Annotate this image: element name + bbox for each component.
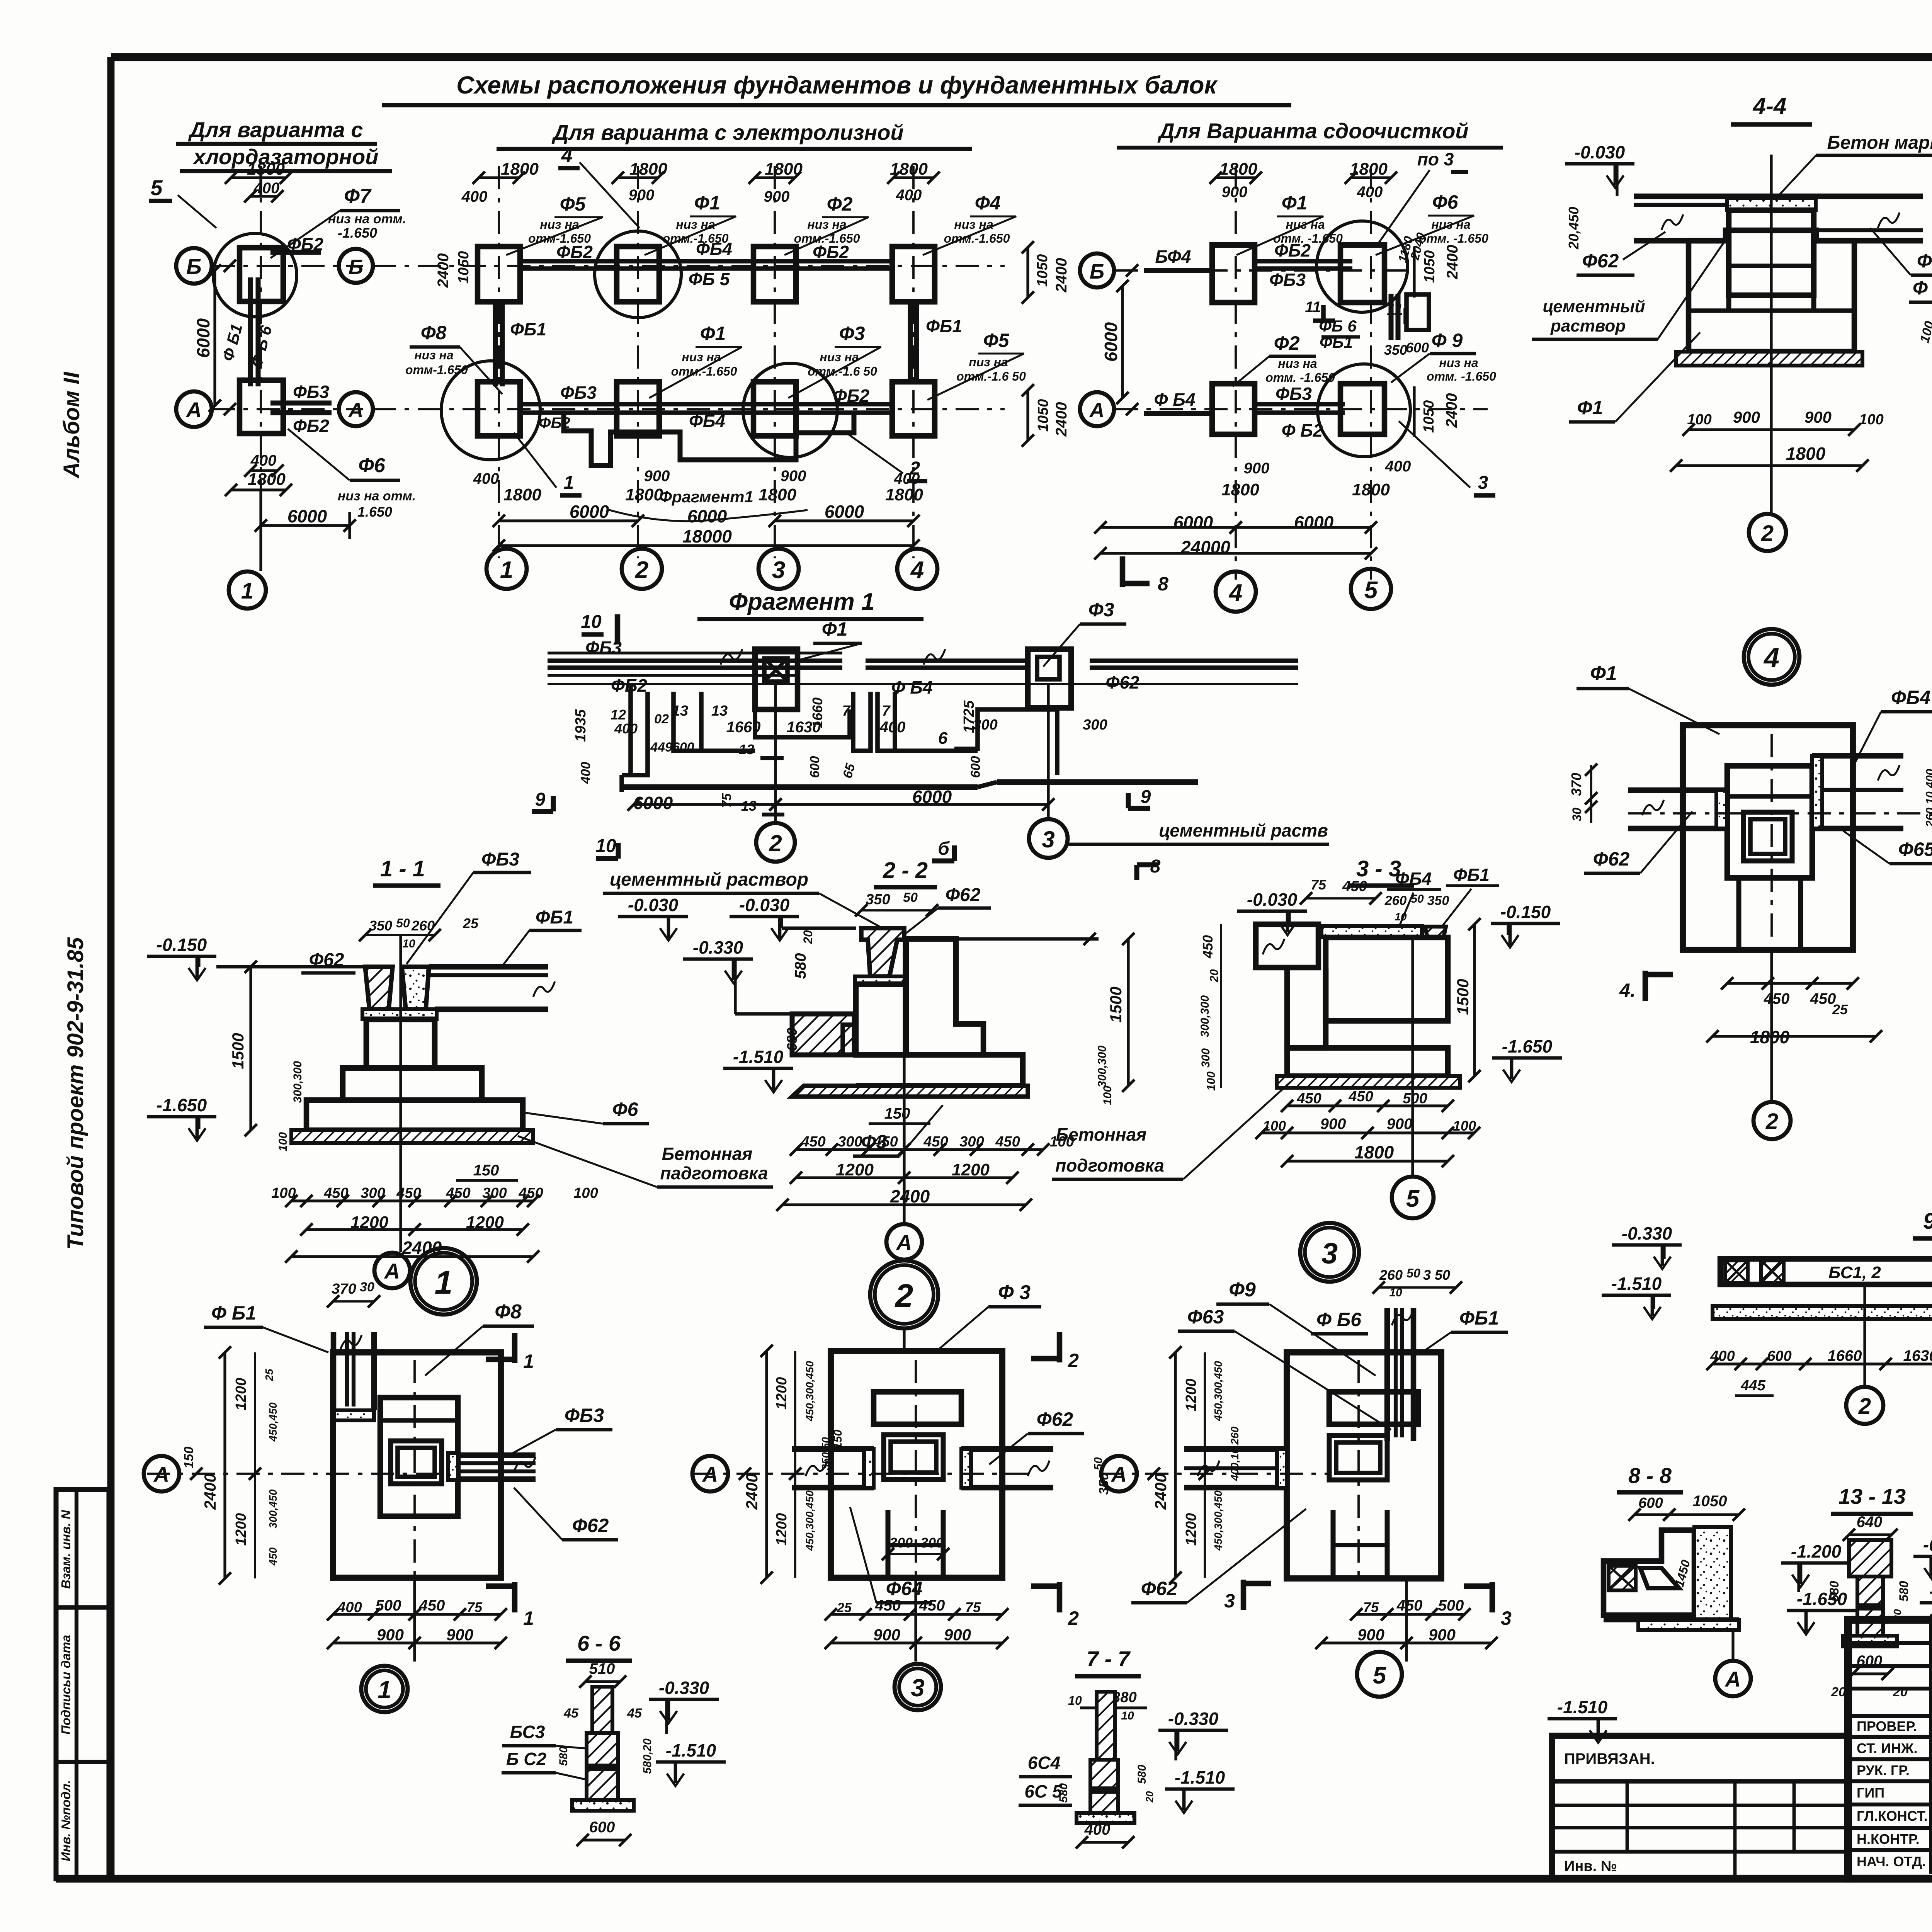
section 4-4 labels FB4 FB5 (1870, 228, 1932, 302)
node 4 bottom dims (1706, 977, 1882, 1047)
fragment 1 label FB2 left (611, 675, 647, 696)
section 8-8 parts (1604, 1527, 1739, 1630)
plan C top dims (1209, 160, 1397, 201)
fragment 1 bottom dim 6000 left (628, 793, 782, 813)
svg-text:-1.510: -1.510 (1175, 1767, 1225, 1787)
svg-text:350: 350 (1384, 342, 1407, 358)
svg-text:А: А (1111, 1462, 1127, 1486)
svg-text:600: 600 (1406, 340, 1429, 355)
svg-text:2: 2 (1068, 1350, 1079, 1371)
svg-text:45: 45 (563, 1706, 579, 1721)
svg-text:Ф1: Ф1 (1577, 397, 1603, 418)
svg-text:13: 13 (672, 703, 688, 719)
svg-text:6: 6 (938, 729, 948, 748)
node 2 label FB4 bottom (850, 1507, 932, 1603)
svg-text:9 - 9: 9 - 9 (1923, 1209, 1932, 1234)
svg-text:400: 400 (1385, 458, 1411, 475)
svg-text:900: 900 (1387, 1116, 1413, 1133)
section 4-4 note Beton marki 100 (1774, 133, 1932, 201)
section 1-1 top dims 350 50 260 25 (359, 915, 479, 950)
svg-text:13 - 13: 13 - 13 (1838, 1484, 1906, 1509)
svg-text:4: 4 (910, 557, 924, 583)
node 3 left rot dims (1151, 1346, 1241, 1584)
svg-text:400: 400 (578, 762, 593, 784)
svg-text:1800: 1800 (629, 160, 667, 179)
svg-text:25: 25 (463, 915, 479, 931)
svg-text:-1.510: -1.510 (733, 1047, 784, 1067)
svg-text:отм. -1.650: отм. -1.650 (1273, 231, 1343, 245)
svg-text:20: 20 (1144, 1791, 1155, 1803)
fragment 1 bottom dim 6000 right (769, 787, 1054, 811)
svg-text:низ на: низ на (1439, 356, 1478, 370)
node 1 label FB1 (204, 1302, 328, 1352)
svg-text:450: 450 (518, 1185, 543, 1201)
plan A axis line B (212, 265, 363, 267)
svg-text:Б: Б (186, 254, 202, 279)
svg-text:300,300: 300,300 (291, 1061, 304, 1103)
svg-text:ФБ 5: ФБ 5 (689, 269, 730, 289)
plan B axis circle 1 bottom (486, 549, 527, 589)
svg-text:20,450: 20,450 (1566, 207, 1582, 250)
title block staff labels (1857, 1718, 1932, 1869)
plan B axis circle 3 bottom (759, 549, 799, 589)
svg-text:100: 100 (1263, 1118, 1286, 1134)
plan C footings row A (1212, 364, 1410, 457)
node 1 dims 370 30 top (327, 1280, 380, 1308)
svg-text:900: 900 (1733, 408, 1760, 426)
main title (382, 71, 1291, 105)
node 2 dims 300 300 (882, 1535, 949, 1560)
svg-text:Ф Б6: Ф Б6 (1316, 1309, 1362, 1330)
plan C section mark 3 (1399, 421, 1495, 495)
svg-text:400: 400 (1084, 1821, 1111, 1838)
axis circle 4 big above node 4 (1744, 629, 1799, 685)
plan A axis circle 1 bottom (229, 490, 266, 609)
section 3-3 bottom dims row2 (1255, 1116, 1480, 1139)
section 7-7 dim 400 (1076, 1821, 1134, 1849)
node 4 label F1 (1577, 662, 1719, 734)
fragment 1 mark 10 bottom (595, 836, 618, 859)
section 1-1 label FB2 (301, 950, 355, 973)
svg-text:1200: 1200 (952, 1160, 990, 1179)
svg-text:50: 50 (1411, 893, 1424, 905)
section 9-9 base strip (1713, 1306, 1932, 1319)
svg-text:2400: 2400 (743, 1473, 761, 1510)
svg-text:75: 75 (467, 1599, 483, 1615)
svg-text:низ на: низ на (676, 218, 715, 231)
node 4 rot dims right (1924, 719, 1932, 956)
svg-text:ФБ2: ФБ2 (833, 386, 869, 406)
svg-text:низ на отм.: низ на отм. (338, 489, 416, 503)
plan B section mark 4 top (558, 145, 639, 228)
svg-text:02: 02 (654, 712, 669, 726)
section 7-7 parts (1077, 1692, 1134, 1823)
svg-text:А: А (153, 1462, 169, 1486)
plan A axis circle A (176, 391, 236, 427)
svg-text:7: 7 (842, 703, 851, 719)
svg-text:10: 10 (1395, 911, 1407, 923)
svg-text:ФБ3: ФБ3 (293, 382, 329, 402)
svg-text:300: 300 (1199, 1048, 1212, 1068)
svg-text:3: 3 (1042, 827, 1054, 852)
svg-text:6 - 6: 6 - 6 (577, 1631, 621, 1655)
section 7-7 rot dims (1057, 1765, 1155, 1803)
svg-text:цементный: цементный (1543, 297, 1645, 316)
svg-text:-1.650: -1.650 (156, 1095, 207, 1115)
section 7-7 labels BC4 BC5 (1019, 1753, 1072, 1805)
svg-text:450,300,450: 450,300,450 (804, 1361, 816, 1422)
svg-text:А: А (185, 398, 202, 422)
section 7-7 level -1.510 (1165, 1767, 1235, 1813)
svg-text:Ф Б4: Ф Б4 (891, 677, 933, 697)
node 1 section flag 1 bottom (486, 1582, 534, 1629)
svg-text:7: 7 (882, 703, 891, 719)
plan A beams FB1 FB6 vertical (219, 277, 276, 386)
section 6-6 rot dims 580 20 (557, 1738, 654, 1774)
svg-text:900: 900 (446, 1626, 473, 1644)
svg-text:400: 400 (1710, 1348, 1735, 1364)
svg-text:Ф62: Ф62 (1593, 848, 1630, 870)
section 1-1 dim 1500 left (229, 961, 257, 1136)
svg-text:ФБ 6: ФБ 6 (1319, 317, 1357, 335)
fragment 1 top beams (548, 649, 1298, 684)
svg-text:4.: 4. (1619, 980, 1636, 1001)
section 3-3 level -0.030 (1237, 889, 1307, 935)
svg-text:640: 640 (1857, 1514, 1883, 1531)
section 8-8 rot dim 1450 (1672, 1558, 1693, 1588)
svg-text:500: 500 (376, 1597, 401, 1614)
plan C axis line B (1115, 269, 1406, 272)
svg-text:Ф1: Ф1 (1282, 192, 1308, 214)
svg-text:1800: 1800 (885, 485, 923, 504)
section 4-4 bottom dims (1670, 408, 1884, 472)
svg-text:1800: 1800 (1786, 444, 1826, 464)
plan A dim 6000 left (193, 264, 221, 412)
section 1-1 column (366, 1019, 435, 1068)
svg-text:1800: 1800 (248, 470, 286, 489)
svg-text:450: 450 (1764, 990, 1790, 1007)
svg-text:100: 100 (573, 1185, 598, 1201)
plan B middle leader labels (405, 322, 1026, 400)
section 2-2 base strip (792, 1086, 1028, 1097)
svg-text:отм-1.650: отм-1.650 (528, 231, 591, 245)
section 3-3 dims 260 50 350 (1384, 893, 1449, 923)
section 4-4 dim 100 right rot (1917, 320, 1932, 345)
section 6-6 level -0.330 (649, 1678, 719, 1734)
svg-text:низ на: низ на (682, 350, 721, 364)
plan B footing axis 1 row A (478, 382, 520, 436)
svg-text:низ на: низ на (540, 218, 579, 231)
plan C mark po 3 (1376, 149, 1468, 247)
node 1 beam FB1 from top (333, 1332, 374, 1420)
svg-text:900: 900 (1804, 408, 1832, 426)
svg-text:Ф1: Ф1 (822, 618, 848, 640)
section 8-8 level -1.650 (1787, 1589, 1857, 1634)
svg-text:Ф62: Ф62 (1037, 1408, 1073, 1430)
section 6-6 level -1.510 (656, 1740, 726, 1786)
plan A dim 6000 bottom (255, 506, 356, 539)
node 3 label FB1 top (1422, 1307, 1508, 1352)
svg-text:900: 900 (1244, 460, 1270, 477)
section 4-4 mortar note (1532, 232, 1731, 339)
plan B beam line row A (520, 404, 893, 413)
plan C beam BF4 row B (1144, 247, 1212, 270)
section 1-1 axis circle A (374, 935, 410, 1288)
section 2-2 beam trapezoid (861, 928, 904, 976)
svg-text:150: 150 (473, 1162, 499, 1179)
svg-text:Ф Б2: Ф Б2 (1282, 420, 1323, 440)
svg-text:450,300,450: 450,300,450 (804, 1490, 816, 1551)
plan B axis line A horizontal (373, 408, 1005, 410)
fragment 1 label F1 (796, 618, 862, 661)
section 2-2 dims 350 50 (855, 890, 938, 917)
svg-text:падготовка: падготовка (660, 1163, 768, 1183)
node 4 section flags 4 (1619, 971, 1932, 1012)
plan B node circle at axis 3 row A (743, 363, 837, 457)
fragment 1 mark 10 top (581, 612, 617, 645)
section 6-6 labels BC3 BC2 (502, 1722, 585, 1779)
svg-text:низ на отм.: низ на отм. (328, 212, 406, 226)
plan B label FB1 left (510, 319, 546, 339)
svg-text:900: 900 (944, 1626, 971, 1644)
node 4 label FB4 (1851, 687, 1932, 771)
node 3 axis line A and circle (1100, 1360, 1359, 1578)
svg-text:Для варианта с: Для варианта с (188, 117, 363, 142)
svg-text:1800: 1800 (1750, 1027, 1790, 1047)
section 2-2 label FB2 (906, 885, 991, 933)
svg-text:6000: 6000 (570, 502, 609, 522)
svg-text:260 10 400: 260 10 400 (1924, 769, 1932, 827)
svg-text:3: 3 (1321, 1237, 1338, 1270)
svg-text:7 - 7: 7 - 7 (1087, 1646, 1131, 1671)
svg-text:Ф5: Ф5 (983, 330, 1010, 351)
plan A beam FB2 on axis B (270, 234, 323, 254)
svg-text:4: 4 (561, 145, 573, 167)
plan A footing F7 on axis B (213, 233, 297, 317)
svg-text:1800: 1800 (765, 160, 803, 179)
svg-text:1800: 1800 (890, 160, 928, 179)
svg-text:2400: 2400 (1444, 245, 1461, 280)
svg-text:900: 900 (764, 188, 790, 205)
svg-text:100: 100 (1687, 412, 1711, 428)
svg-text:Н.КОНТР.: Н.КОНТР. (1857, 1831, 1920, 1847)
node 3 label FB3 (1178, 1306, 1391, 1430)
svg-text:1: 1 (241, 578, 253, 604)
section 2-2 mortar strip (855, 976, 907, 984)
svg-text:Б С2: Б С2 (506, 1749, 547, 1769)
plan B node circle at axis 1 row A (441, 361, 540, 460)
svg-text:2400: 2400 (1053, 402, 1070, 437)
section 1-1 footing (306, 1100, 523, 1130)
svg-text:5: 5 (150, 175, 163, 200)
svg-text:А: А (1725, 1667, 1741, 1691)
svg-text:900: 900 (644, 468, 670, 485)
section 4-4 floor slabs (1634, 196, 1923, 241)
svg-text:400: 400 (1357, 184, 1383, 201)
svg-text:1800: 1800 (1221, 480, 1259, 499)
fragment 1 axis circle 2 (756, 684, 795, 862)
svg-text:1: 1 (435, 1264, 453, 1301)
section 2-2 dim 150 (869, 1105, 930, 1124)
svg-text:Ф1: Ф1 (700, 323, 726, 344)
node 4 inner column (1727, 766, 1812, 950)
svg-text:отм.-1.650: отм.-1.650 (944, 231, 1010, 245)
svg-text:1: 1 (564, 473, 574, 493)
svg-text:ФБ3: ФБ3 (1276, 384, 1312, 404)
svg-text:Ф6: Ф6 (1432, 191, 1459, 213)
section 1-1 beam trapezoid hatched (365, 967, 429, 1009)
svg-text:-0.330: -0.330 (693, 937, 743, 957)
svg-text:ПРИВЯЗАН.: ПРИВЯЗАН. (1564, 1750, 1655, 1767)
plan A dim 400 bottom (244, 452, 284, 477)
svg-text:Для варианта с электролизно: Для варианта с электролизной (551, 120, 903, 145)
svg-text:по 3: по 3 (1417, 149, 1454, 169)
svg-text:1800: 1800 (501, 160, 539, 179)
node 3 label FB2 bottom (1131, 1509, 1306, 1603)
svg-text:1800: 1800 (1352, 480, 1390, 499)
svg-text:Схемы расположения фундамент: Схемы расположения фундаментов и фундаме… (456, 71, 1218, 99)
node 4 axis line B and circle (1628, 734, 1932, 943)
plan B footing axis 1 row B (478, 247, 520, 302)
plan B side dims 2400 1050 (435, 241, 1070, 447)
plan B footing axis 2 row B (617, 247, 659, 302)
svg-text:12: 12 (611, 707, 626, 723)
section 8-8 level -1.510 left (1548, 1697, 1617, 1743)
svg-text:Подписьи дата: Подписьи дата (59, 1635, 73, 1735)
svg-text:ФБ3: ФБ3 (481, 849, 519, 870)
node 2 section flag 2 top (1031, 1332, 1079, 1371)
node 3 section flag 3 right (1464, 1582, 1512, 1629)
svg-text:низ на: низ на (414, 348, 453, 362)
svg-text:30: 30 (1570, 808, 1584, 821)
section 1-1 rot dims 300 (277, 1061, 304, 1151)
svg-text:ФБ2: ФБ2 (287, 234, 323, 254)
plan A beams FB3 FB2 on axis A (270, 382, 332, 436)
svg-text:ФБ1: ФБ1 (926, 316, 962, 336)
svg-text:Ф8: Ф8 (495, 1301, 522, 1323)
svg-text:отм-1.650: отм-1.650 (405, 363, 468, 377)
svg-text:1050: 1050 (1693, 1493, 1727, 1510)
plan B title (497, 120, 972, 149)
svg-text:350: 350 (1427, 893, 1449, 908)
svg-text:260: 260 (411, 918, 435, 934)
plan C axis circle B (1080, 253, 1138, 287)
plan C axis line A (1115, 408, 1488, 410)
svg-text:500: 500 (1403, 1090, 1427, 1107)
svg-text:Ф 9: Ф 9 (1432, 330, 1463, 351)
node 2 axis circle 3 bottom (895, 1578, 941, 1710)
node 2 label F3 (935, 1281, 1041, 1352)
svg-text:Взам. инв. N: Взам. инв. N (59, 1510, 73, 1589)
svg-text:11: 11 (1387, 301, 1403, 318)
svg-text:2: 2 (895, 1277, 913, 1314)
svg-text:600: 600 (1638, 1495, 1663, 1511)
svg-text:300: 300 (959, 1134, 984, 1150)
plan B bottom dims (473, 468, 923, 552)
svg-text:25: 25 (263, 1369, 275, 1381)
section 1-1 mortar strip (362, 1009, 437, 1019)
svg-text:ФБ3: ФБ3 (585, 638, 622, 658)
section 6-6 parts (563, 1687, 642, 1811)
plan B beams FB1 vertical axis1 and axis4 (495, 301, 917, 386)
svg-text:2400: 2400 (1151, 1473, 1170, 1510)
fragment 1 mark 6 bottom (932, 838, 954, 861)
svg-text:300,300: 300,300 (1199, 995, 1211, 1037)
svg-text:150: 150 (182, 1447, 196, 1469)
section 9-9 title (1913, 1209, 1932, 1238)
svg-text:низ на: низ на (1286, 218, 1325, 231)
svg-text:1200: 1200 (836, 1160, 874, 1179)
section 6-6 dim 510 (579, 1660, 626, 1688)
svg-text:20: 20 (1831, 1685, 1846, 1699)
plan B axis line 2 vertical (637, 166, 639, 558)
svg-text:ФБ1: ФБ1 (510, 319, 546, 339)
svg-text:50: 50 (396, 916, 410, 930)
section 4-4 label F1 (1569, 332, 1700, 422)
plan C section mark 8 bottom (1122, 556, 1168, 595)
svg-text:100: 100 (1453, 1118, 1476, 1134)
svg-text:1800: 1800 (247, 160, 285, 179)
svg-text:2400: 2400 (890, 1186, 930, 1206)
svg-text:24000: 24000 (1180, 537, 1230, 557)
svg-text:45: 45 (627, 1706, 642, 1721)
plan B top dims (461, 160, 940, 205)
section 2-2 levels -0.030 (618, 895, 856, 940)
svg-text:2: 2 (1068, 1607, 1079, 1629)
svg-text:Ф63: Ф63 (1187, 1306, 1224, 1328)
section 9-9 beam strip (1720, 1259, 1932, 1284)
node 3 bottom dims (1315, 1597, 1498, 1649)
node 4 label FB5 (1843, 831, 1932, 864)
section 4-4 dims 20 450 left rot (1566, 207, 1582, 250)
svg-text:ГЛ.КОНСТ.: ГЛ.КОНСТ. (1857, 1808, 1928, 1824)
node 4 rot dims left 30 370 (1568, 764, 1597, 823)
svg-text:75: 75 (1311, 877, 1327, 893)
svg-text:1800: 1800 (625, 485, 663, 504)
svg-text:ФБ3: ФБ3 (565, 1405, 604, 1426)
section 2-2 rot dims left (784, 930, 815, 1051)
section 1-1 label F6 (526, 1099, 649, 1124)
svg-text:300,450: 300,450 (267, 1489, 279, 1529)
plan A dim 1800 top (225, 160, 292, 195)
svg-text:6000: 6000 (912, 787, 952, 807)
plan B fragment1 callout (607, 488, 808, 521)
svg-text:1800: 1800 (1219, 160, 1257, 179)
svg-text:ФБ1: ФБ1 (1320, 333, 1353, 351)
section 1-1 label FB3 top (406, 849, 531, 964)
fragment 1 label FB3 (585, 638, 622, 658)
section 3-3 level -0.150 right (1491, 902, 1560, 947)
svg-text:3: 3 (1224, 1590, 1235, 1612)
svg-text:ФБ3: ФБ3 (1269, 270, 1306, 290)
svg-text:1200: 1200 (774, 1377, 790, 1410)
section 13-13 dim 640 (1843, 1514, 1898, 1541)
section 1-1 bottom dim 2400 (285, 1238, 539, 1263)
svg-text:8 - 8: 8 - 8 (1628, 1463, 1672, 1488)
plan B labels row A beams (539, 383, 869, 432)
plan B footing axis 4 row A (892, 382, 935, 436)
section 3-3 labels FB4 FB1 (1387, 865, 1499, 927)
node 1 inner parts (380, 1398, 458, 1516)
svg-text:400: 400 (473, 470, 499, 487)
svg-text:900: 900 (781, 468, 806, 485)
title block left table grid (1848, 1620, 1932, 1879)
svg-text:Инв. №: Инв. № (1564, 1858, 1617, 1874)
svg-text:2400: 2400 (435, 253, 452, 288)
svg-text:450: 450 (267, 1547, 279, 1566)
svg-text:Ф62: Ф62 (1582, 250, 1619, 272)
section 3-3 axis circle 3 (1300, 1223, 1359, 1282)
